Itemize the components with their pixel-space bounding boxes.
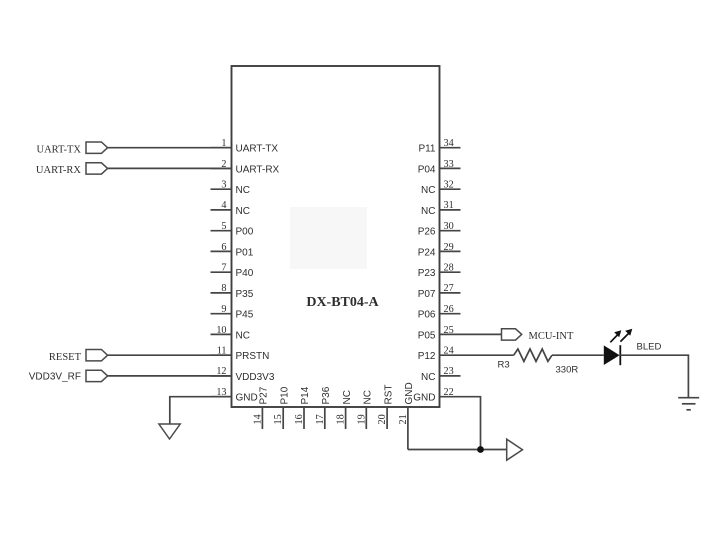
svg-text:P45: P45 <box>236 310 254 321</box>
svg-text:NC: NC <box>236 206 250 217</box>
pin 27 P07 (right) <box>418 283 461 300</box>
pin 21 GND (bottom) <box>398 382 415 449</box>
svg-text:DX-BT04-A: DX-BT04-A <box>306 295 379 310</box>
svg-text:15: 15 <box>273 414 284 424</box>
svg-text:P24: P24 <box>418 247 436 258</box>
wire UART-TX to pin 1 <box>108 147 232 149</box>
pin 13 GND (left) <box>211 387 258 404</box>
wire R3 to LED anode <box>552 354 604 356</box>
pin 2 UART-RX (left) <box>211 159 280 176</box>
pin 9 P45 (left) <box>211 304 254 321</box>
resistor R3 <box>514 349 552 361</box>
svg-text:21: 21 <box>398 414 409 424</box>
svg-text:27: 27 <box>444 283 454 294</box>
pin 7 P40 (left) <box>211 263 254 280</box>
wire pin 22 GND down <box>461 397 481 450</box>
svg-text:PRSTN: PRSTN <box>236 351 270 362</box>
svg-text:20: 20 <box>377 414 388 424</box>
svg-text:GND: GND <box>413 393 435 404</box>
pin 18 NC (bottom) <box>336 390 353 429</box>
wire pin 25 P05 to MCU-INT port <box>461 333 502 335</box>
pin 14 P27 (bottom) <box>252 386 269 429</box>
pin 22 GND (right) <box>413 387 460 404</box>
pin 6 P01 (left) <box>211 242 254 259</box>
svg-text:P27: P27 <box>259 386 270 404</box>
svg-text:18: 18 <box>336 414 347 424</box>
svg-text:3: 3 <box>221 180 226 191</box>
svg-text:RESET: RESET <box>49 352 82 363</box>
svg-text:5: 5 <box>221 221 226 232</box>
pin 10 NC (left) <box>211 325 250 342</box>
wire RESET to pin 11 <box>108 354 232 356</box>
svg-text:24: 24 <box>444 346 454 357</box>
port VDD3V_RF <box>29 370 108 382</box>
svg-text:34: 34 <box>444 138 454 149</box>
pin 16 P14 (bottom) <box>294 386 311 429</box>
svg-text:VDD3V3: VDD3V3 <box>236 372 275 383</box>
port UART-RX <box>36 163 108 176</box>
svg-text:17: 17 <box>315 414 326 424</box>
pin 8 P35 (left) <box>211 283 254 300</box>
svg-text:26: 26 <box>444 304 454 315</box>
svg-text:6: 6 <box>221 242 226 253</box>
pin 29 P24 (right) <box>418 242 461 259</box>
svg-text:P23: P23 <box>418 268 436 279</box>
svg-text:P11: P11 <box>418 144 435 155</box>
svg-text:P00: P00 <box>236 227 254 238</box>
svg-text:29: 29 <box>444 242 454 253</box>
svg-text:32: 32 <box>444 180 454 191</box>
svg-text:14: 14 <box>252 414 263 424</box>
port UART-TX <box>37 142 108 156</box>
wire pin 24 P12 to R3 <box>461 354 514 356</box>
pin 28 P23 (right) <box>418 263 461 280</box>
svg-text:P26: P26 <box>418 227 436 238</box>
pin 4 NC (left) <box>211 200 250 217</box>
pin 33 P04 (right) <box>418 159 461 176</box>
wire pin 21 GND to junction <box>408 449 507 451</box>
svg-text:P01: P01 <box>236 247 254 258</box>
svg-text:P40: P40 <box>236 268 254 279</box>
pin 23 NC (right) <box>421 366 460 383</box>
wire LED cathode to earth ground <box>620 355 688 397</box>
svg-text:NC: NC <box>421 206 435 217</box>
svg-text:BLED: BLED <box>637 342 662 353</box>
svg-text:GND: GND <box>404 382 415 404</box>
pin 12 VDD3V3 (left) <box>211 366 275 383</box>
svg-text:NC: NC <box>363 390 374 404</box>
svg-text:UART-TX: UART-TX <box>236 144 279 155</box>
pin 31 NC (right) <box>421 200 460 217</box>
pin 5 P00 (left) <box>211 221 254 238</box>
svg-text:P06: P06 <box>418 310 436 321</box>
svg-text:UART-TX: UART-TX <box>37 145 82 156</box>
ground (open triangle, pin 13) <box>159 424 180 439</box>
pin 26 P06 (right) <box>418 304 461 321</box>
port MCU-INT <box>502 329 574 342</box>
wire UART-RX to pin 2 <box>108 167 232 169</box>
pin 30 P26 (right) <box>418 221 461 238</box>
svg-text:NC: NC <box>236 330 250 341</box>
svg-text:33: 33 <box>444 159 454 170</box>
svg-text:8: 8 <box>221 283 226 294</box>
svg-text:25: 25 <box>444 325 454 336</box>
wire pin 13 GND to ground <box>170 397 232 424</box>
svg-text:NC: NC <box>421 185 435 196</box>
pin 34 P11 (right) <box>418 138 460 155</box>
IC U1 DX-BT04-A body <box>232 66 440 407</box>
svg-text:P05: P05 <box>418 330 436 341</box>
LED D1 BLED <box>604 329 633 365</box>
svg-text:P04: P04 <box>418 164 436 175</box>
junction GND node <box>477 446 484 453</box>
svg-text:NC: NC <box>236 185 250 196</box>
svg-text:7: 7 <box>221 263 226 274</box>
pin 25 P05 (right) <box>418 325 461 342</box>
pin 11 PRSTN (left) <box>211 346 270 363</box>
pin 15 P10 (bottom) <box>273 386 290 429</box>
pin 17 P36 (bottom) <box>315 386 332 429</box>
svg-text:P10: P10 <box>279 386 290 404</box>
pin 24 P12 (right) <box>418 346 461 363</box>
svg-text:NC: NC <box>421 372 435 383</box>
svg-text:16: 16 <box>294 414 305 424</box>
power port (open right triangle) <box>507 439 523 460</box>
svg-text:UART-RX: UART-RX <box>36 165 81 176</box>
svg-text:VDD3V_RF: VDD3V_RF <box>29 372 81 383</box>
svg-text:P14: P14 <box>300 386 311 404</box>
pin 1 UART-TX (left) <box>211 138 279 155</box>
svg-text:23: 23 <box>444 366 454 377</box>
svg-text:9: 9 <box>221 304 226 315</box>
pin 32 NC (right) <box>421 180 460 197</box>
svg-text:28: 28 <box>444 263 454 274</box>
svg-text:30: 30 <box>444 221 454 232</box>
svg-text:10: 10 <box>216 325 226 336</box>
earth ground (LED) <box>678 398 699 410</box>
port RESET <box>49 350 108 364</box>
pin 3 NC (left) <box>211 180 250 197</box>
svg-text:P35: P35 <box>236 289 254 300</box>
svg-text:22: 22 <box>444 387 454 398</box>
pin 19 NC (bottom) <box>356 390 373 429</box>
wire VDD3V_RF to pin 12 <box>108 375 232 377</box>
svg-text:P12: P12 <box>418 351 436 362</box>
pin 20 RST (bottom) <box>377 385 394 430</box>
svg-text:GND: GND <box>236 393 258 404</box>
svg-text:P07: P07 <box>418 289 436 300</box>
svg-text:RST: RST <box>383 385 394 405</box>
svg-text:R3: R3 <box>498 360 510 371</box>
svg-text:MCU-INT: MCU-INT <box>529 331 574 342</box>
svg-text:P36: P36 <box>321 386 332 404</box>
svg-text:330R: 330R <box>556 365 579 376</box>
svg-text:4: 4 <box>221 200 226 211</box>
svg-text:31: 31 <box>444 200 454 211</box>
svg-text:NC: NC <box>342 390 353 404</box>
svg-text:UART-RX: UART-RX <box>236 164 280 175</box>
svg-text:19: 19 <box>356 414 367 424</box>
